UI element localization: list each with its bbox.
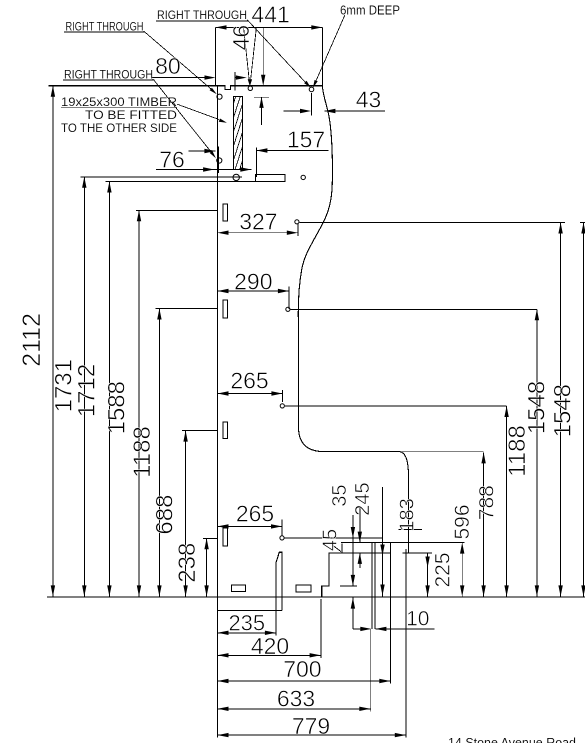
svg-text:290: 290 [234,269,272,295]
svg-text:6mm DEEP: 6mm DEEP [340,3,400,17]
svg-text:788: 788 [475,485,498,520]
svg-text:238: 238 [174,543,201,583]
svg-text:235: 235 [228,611,265,636]
svg-text:183: 183 [396,498,418,531]
svg-text:TO THE OTHER SIDE: TO THE OTHER SIDE [61,123,177,135]
svg-text:1548: 1548 [524,381,551,434]
svg-text:441: 441 [251,1,289,27]
svg-text:45: 45 [320,529,342,551]
svg-text:225: 225 [432,552,455,587]
svg-text:688: 688 [152,495,179,535]
svg-text:1712: 1712 [74,364,101,417]
svg-text:265: 265 [230,368,268,394]
svg-text:80: 80 [155,53,181,79]
svg-text:10: 10 [406,608,429,631]
svg-text:43: 43 [356,87,382,113]
svg-text:1548: 1548 [549,384,576,437]
svg-text:633: 633 [277,686,315,712]
svg-text:RIGHT THROUGH: RIGHT THROUGH [157,10,247,22]
svg-text:35: 35 [329,484,351,506]
svg-text:76: 76 [159,147,185,173]
svg-text:596: 596 [451,504,474,539]
svg-text:TO BE FITTED: TO BE FITTED [85,110,177,122]
svg-text:14 Stone Avenue Road: 14 Stone Avenue Road [448,735,576,743]
svg-text:2112: 2112 [18,313,46,367]
svg-text:1188: 1188 [129,426,156,478]
svg-text:157: 157 [287,127,325,153]
svg-text:245: 245 [352,482,374,515]
svg-text:1588: 1588 [104,381,131,434]
svg-text:265: 265 [236,501,274,527]
svg-text:46: 46 [228,25,254,51]
svg-text:779: 779 [292,713,330,739]
svg-text:700: 700 [283,656,321,682]
svg-text:327: 327 [239,209,277,235]
